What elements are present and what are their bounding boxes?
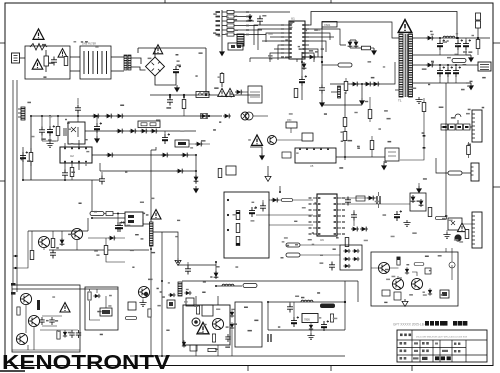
diode D38 <box>194 175 199 183</box>
cap C66 <box>49 317 54 325</box>
module resistor Rb <box>236 224 240 233</box>
transistor Q11 <box>71 228 82 239</box>
connector bar dark <box>178 282 182 296</box>
svg-text:GP7 XXXXX 2005-LB-D: GP7 XXXXX 2005-LB-D <box>393 323 428 327</box>
diode D51 <box>367 196 375 201</box>
wire y171 <box>100 163 196 171</box>
wire down to drv pill <box>91 180 93 211</box>
transformer T1 primary winding <box>399 34 403 97</box>
resistor R45 <box>422 103 426 112</box>
box component 3 <box>226 166 236 175</box>
diode D82 <box>405 267 409 274</box>
warning triangle prot <box>60 303 70 313</box>
pill label drv <box>90 212 104 216</box>
net label 12V pill <box>452 59 466 63</box>
diode D32 <box>116 114 124 119</box>
top rail y231 <box>28 218 88 231</box>
ecap C63 <box>117 221 125 232</box>
junction standby <box>344 301 346 303</box>
vertical wire x31 <box>30 116 32 180</box>
hot ground arrow <box>359 98 365 105</box>
diode D80 <box>309 323 313 330</box>
cap C80 <box>287 304 293 313</box>
vertical wire x322 <box>321 45 323 70</box>
wire source down a <box>150 246 152 356</box>
module resistor Rc <box>236 237 240 246</box>
diode D31 <box>105 114 113 119</box>
dark bar comp <box>37 300 40 310</box>
resistor R40 <box>476 40 480 49</box>
wire U1 right pin 2 <box>305 27 340 45</box>
wire y131 <box>85 130 196 132</box>
svg-text:KENOTRONTV: KENOTRONTV <box>2 351 170 373</box>
wire reg feeds <box>182 281 358 305</box>
wire y262 <box>178 264 216 266</box>
svg-text:U1: U1 <box>291 17 295 21</box>
pill label b <box>286 243 300 247</box>
wire ladder down <box>221 45 223 49</box>
HV right vertical <box>205 48 207 95</box>
regulator IC U9 <box>302 314 318 323</box>
inductor box L3 <box>196 92 209 98</box>
resistor R51 <box>343 118 347 127</box>
diode D53 <box>360 227 368 232</box>
box comp bc3 <box>186 298 194 306</box>
diode D46 <box>150 129 158 134</box>
inductor L2 <box>443 36 455 38</box>
ground standby <box>307 333 314 339</box>
transistor Q20 <box>378 262 389 273</box>
electrolytic C41 <box>455 39 463 50</box>
component row box 1 <box>441 124 448 130</box>
diode D70 <box>168 293 175 297</box>
ladder pin labels <box>216 11 221 13</box>
wire box B internal <box>90 289 107 320</box>
wire module to U6 c <box>269 224 313 226</box>
module resistor Ra <box>236 211 240 220</box>
diode D43 <box>235 90 243 95</box>
wire Q12 to Q14 <box>25 305 27 333</box>
electrolytic C42 <box>463 39 471 50</box>
junction dot sec <box>456 37 458 39</box>
ground lv <box>403 220 410 226</box>
wire Q11 emitter <box>76 240 78 250</box>
diode G2 <box>352 249 359 253</box>
inductor L4 <box>222 284 234 286</box>
wire U1 top right to HV <box>305 12 457 39</box>
optocoupler U4 circles <box>241 112 249 120</box>
vertical x216 <box>215 262 217 278</box>
zone tick right lower <box>493 186 500 188</box>
electrolytic cap C5 main filter <box>173 65 181 76</box>
wire to hot ground <box>361 84 363 98</box>
bottom-left frame stub <box>0 370 25 372</box>
wire module to U6 a <box>269 199 313 201</box>
box comp drv3 <box>382 290 390 296</box>
cap C62 <box>50 250 56 259</box>
drop arrow into module 2 <box>267 166 269 174</box>
box comp right <box>356 196 365 201</box>
wire R63 links <box>106 238 125 262</box>
wire box bottom <box>12 349 80 351</box>
net pill CN5 <box>448 171 462 175</box>
pill label a <box>281 198 292 201</box>
diode G1 <box>343 249 350 253</box>
wire U1 bottom drop <box>296 59 298 62</box>
diode D12 <box>351 82 359 87</box>
capacitor C38 <box>167 97 173 106</box>
ground x196 <box>193 186 199 193</box>
common-mode choke L1 winding B <box>128 55 131 70</box>
transformer T1 secondary winding <box>409 34 413 97</box>
box component 2 <box>175 140 189 147</box>
optocoupler U3 box <box>68 122 85 144</box>
capacitor C36 <box>99 176 105 185</box>
ecap C82 <box>321 320 329 331</box>
diode D36 <box>181 153 189 158</box>
capacitor C20 <box>257 16 263 25</box>
electrolytic C31 <box>47 125 55 136</box>
wire rungs to IC <box>245 12 290 35</box>
resistor R63 <box>104 246 108 255</box>
bottom bus wire <box>130 355 345 357</box>
connector CN6 <box>472 212 482 248</box>
wire module to U6 b <box>256 214 313 216</box>
transistor blob Q7 <box>454 234 461 241</box>
cap bars left of U3 <box>64 128 66 136</box>
MOSFET Q3 bar <box>338 86 341 98</box>
wire pills to diode grid <box>300 245 340 255</box>
diode G4 <box>352 257 359 261</box>
vertical x162 <box>161 232 163 356</box>
resistor R72 <box>212 334 215 342</box>
resistor RX1 <box>64 57 68 66</box>
wire prot mid <box>28 330 78 350</box>
ladder rung wires <box>222 11 245 13</box>
ground q15 <box>139 300 146 306</box>
U1 pin number labels <box>281 24 284 25</box>
wire hv mid <box>302 52 322 62</box>
diode D83 <box>428 288 432 295</box>
main IC U6 pins <box>313 197 341 199</box>
wire bridge top to HV top wire <box>154 48 156 57</box>
resistor R31 <box>70 168 74 177</box>
vertical x196 down <box>195 155 197 184</box>
component value labels texture <box>85 41 88 43</box>
resistor R46 <box>467 146 471 155</box>
wire y58 lower <box>250 58 289 62</box>
diode D30 <box>92 114 100 119</box>
electrolytic C12 <box>299 75 307 86</box>
title table v-lines <box>412 330 466 362</box>
standby IC U2 body <box>60 147 92 163</box>
diode D47 <box>195 142 203 147</box>
box component <box>248 86 262 103</box>
transistor Q22 <box>411 278 422 289</box>
wire primary top <box>322 22 399 45</box>
wire standby feed <box>357 281 359 302</box>
standby IC U2 pin marks <box>64 148 66 150</box>
standby rail bottom <box>268 302 345 330</box>
wire small circle <box>449 248 455 280</box>
transistor Q13 <box>28 315 39 326</box>
cap C50 <box>260 203 266 212</box>
box comp drv4 <box>394 292 401 300</box>
resistor R82 dark <box>397 257 400 265</box>
transistor Q4 <box>268 136 277 145</box>
resistor R60 <box>106 212 113 216</box>
box comp drv2 <box>440 290 449 298</box>
connector CN2 <box>237 34 244 46</box>
wire box1 to box2 upper <box>70 56 80 58</box>
diode D37 <box>176 169 184 174</box>
resistor R71 <box>196 306 199 314</box>
ground cluster <box>42 140 58 142</box>
capacitor CX2 <box>51 57 57 66</box>
resistor R70 <box>148 309 151 317</box>
feedback module box <box>224 192 269 258</box>
wire drain up <box>151 147 156 222</box>
resistor R62 <box>30 251 34 260</box>
bottom bus left <box>23 179 100 181</box>
standby rail top <box>268 301 345 303</box>
svg-text:XS01: XS01 <box>324 23 331 27</box>
ground right upper <box>415 97 422 103</box>
diode grid box <box>340 245 362 270</box>
pill label c <box>286 253 300 257</box>
electrolytic C44 <box>445 66 453 77</box>
lv rect box <box>410 193 426 211</box>
ladder right labels <box>246 11 249 13</box>
diode D66 <box>93 294 100 298</box>
wire drv internals <box>371 268 417 279</box>
connector pins left <box>11 283 16 286</box>
resistor R54 <box>368 110 372 119</box>
box comp bc2 <box>167 300 175 308</box>
ground arrow ladder <box>219 49 225 56</box>
common-mode choke L1 winding A <box>124 55 127 70</box>
wire secondary rail A <box>413 37 491 39</box>
svg-text:29v-101W SSB-XXXX (42V~48V+140: 29v-101W SSB-XXXX (42V~48V+140V+DC5V) XX… <box>416 336 468 338</box>
small comp a <box>294 89 298 98</box>
warning triangle above transformer <box>398 20 412 33</box>
zone tick top-left <box>164 0 166 3</box>
box comp bc <box>128 302 136 310</box>
diode D20 <box>248 14 253 22</box>
cap C53 <box>351 212 357 221</box>
connector CN5 <box>471 163 479 181</box>
diode D10 <box>308 55 316 60</box>
NTC thermistor RT1 <box>228 43 243 50</box>
wire bridge bottom to ground rail <box>155 76 176 85</box>
ecap C81 <box>291 316 299 327</box>
wire left feed <box>49 249 149 251</box>
warning triangle mosfet <box>151 210 161 220</box>
warning triangle right of fuse <box>58 49 67 58</box>
diode D65 <box>63 330 67 337</box>
vertical left column <box>22 147 24 180</box>
transistor Q10 <box>38 236 49 247</box>
warning triangle opto <box>458 223 467 232</box>
zone tick bottom 3 <box>411 366 413 372</box>
wire lv rail <box>341 203 410 205</box>
diode D44 <box>129 129 137 134</box>
cap C65 <box>39 317 44 325</box>
wire box2 to choke upper <box>111 56 124 58</box>
inductor L5 <box>301 300 313 302</box>
wire secondary rail B <box>413 64 479 66</box>
transformer T1 core <box>405 34 407 97</box>
diode D34 <box>106 153 114 158</box>
electrolytic C45 <box>453 66 461 77</box>
ecap pair C56 <box>377 196 380 204</box>
rectifier diode D1 <box>426 36 434 41</box>
open ground drv <box>402 299 408 306</box>
wire q4 to box <box>277 128 303 140</box>
resistor R80 <box>330 314 333 322</box>
wire reg to bus <box>196 330 232 356</box>
junction pins left <box>14 255 16 257</box>
ground secondary B <box>468 83 474 90</box>
ground opto <box>443 232 450 238</box>
ecap C51 <box>249 206 257 217</box>
wire Q13 down <box>33 327 35 350</box>
pin marks right <box>423 135 426 137</box>
MOSFET Q1 bar <box>150 222 154 246</box>
long vertical net wire right <box>445 83 447 216</box>
long vertical wire pair b <box>16 80 18 292</box>
cap C68 <box>76 330 81 338</box>
pill label drv2 <box>414 263 424 266</box>
diode D50 <box>271 198 279 203</box>
electrolytic C33 <box>94 122 102 133</box>
resistor R61 <box>51 239 55 248</box>
cap C61 <box>185 266 191 275</box>
resistor R38 <box>182 100 186 109</box>
capacitor C32 top <box>75 105 81 114</box>
resistor R67 <box>88 292 91 300</box>
electrolytic C35 <box>20 151 28 162</box>
svg-text:7805: 7805 <box>304 318 310 322</box>
zone tick right upper <box>493 42 500 44</box>
ladder resistors R20-R25 <box>227 10 234 13</box>
wire bus to pwm <box>253 115 268 117</box>
svg-text:U2: U2 <box>70 154 74 158</box>
diode D60 <box>214 271 219 279</box>
wire caps rail <box>42 316 62 326</box>
wire D62 links <box>88 237 125 239</box>
diode pair D13 <box>364 82 372 87</box>
EMI filter box 2 (line filter) <box>80 46 111 79</box>
protection box B <box>85 287 118 330</box>
box comp reg2 <box>190 345 197 351</box>
ladder bus wire <box>221 10 223 45</box>
diode D11 <box>302 62 307 70</box>
line-filter choke windings <box>84 51 107 74</box>
X-capacitor CX1 <box>44 56 49 66</box>
wire U1 left pin routing <box>254 25 285 62</box>
title cell marks r3 <box>400 350 403 353</box>
wire choke to bridge lower <box>131 67 146 70</box>
arrow feed down <box>416 186 422 193</box>
AC plug J1 <box>12 53 20 63</box>
cap C70 <box>225 334 230 342</box>
wire U1 pin lower right <box>305 49 318 62</box>
ecap C57 <box>394 210 402 221</box>
HV top wire <box>138 48 206 53</box>
return bus A <box>413 54 472 56</box>
wire y286 <box>216 285 242 287</box>
zone tick left lower <box>0 180 5 182</box>
snubber resistor R8 <box>362 46 371 50</box>
U2 pin wires <box>65 140 86 172</box>
resistor R58 <box>465 230 469 239</box>
resistor R56 <box>345 238 349 247</box>
standby empty box <box>235 302 262 347</box>
resistor R73 <box>208 348 216 351</box>
vertical x345 <box>336 92 385 160</box>
diode D35 <box>161 153 169 158</box>
component row box 2 <box>449 124 456 130</box>
resistor R50 <box>286 122 297 128</box>
module pin dots <box>227 199 229 201</box>
zone tick bottom 2 <box>330 366 332 372</box>
diode D62 <box>108 236 116 241</box>
electrolytic C43 <box>437 66 445 77</box>
title table h-lines <box>397 340 487 355</box>
label box top <box>322 22 337 28</box>
rectifier diode D2 <box>426 63 434 68</box>
electrolytic C40 <box>437 39 445 50</box>
driver box U8 <box>125 212 143 226</box>
ecap C60 <box>115 221 123 232</box>
box comp reg <box>202 305 213 316</box>
junction dot 322-62 <box>321 61 323 63</box>
diode D33 <box>116 129 124 134</box>
regulator circuit box <box>183 305 230 345</box>
wire box top rail <box>12 288 118 290</box>
EMI filter box 1 <box>25 46 70 79</box>
diode D42 on bus <box>223 114 231 119</box>
pill dark label <box>320 304 335 309</box>
wire U1 right pin 3 <box>305 33 334 52</box>
wire Q10 emitter <box>43 248 45 250</box>
driver box outline <box>371 252 458 306</box>
long vertical wire pair a <box>12 80 14 283</box>
component designator labels texture <box>218 35 221 36</box>
diode D74 <box>182 340 186 347</box>
diode D73 <box>230 322 234 329</box>
pill label opto <box>435 216 446 219</box>
svg-text:U5: U5 <box>310 164 314 168</box>
diode D72 <box>230 310 234 317</box>
drop arrow into module <box>250 147 262 153</box>
output connector CN3 <box>478 62 491 71</box>
warning triangle at bridge <box>153 45 163 54</box>
pill label snb <box>243 284 257 288</box>
capacitor C30 <box>39 127 45 136</box>
diode D40 <box>225 93 233 98</box>
resistor R57 <box>428 208 432 217</box>
wire row to connector <box>441 126 472 128</box>
wire y105 <box>322 104 362 106</box>
cap C39 dark <box>162 133 170 144</box>
title cell label 1 <box>400 334 403 337</box>
diode G3 <box>343 257 350 261</box>
component box X2 <box>302 133 313 141</box>
wire y155 to right <box>92 154 196 156</box>
component row box 3 <box>456 124 463 130</box>
